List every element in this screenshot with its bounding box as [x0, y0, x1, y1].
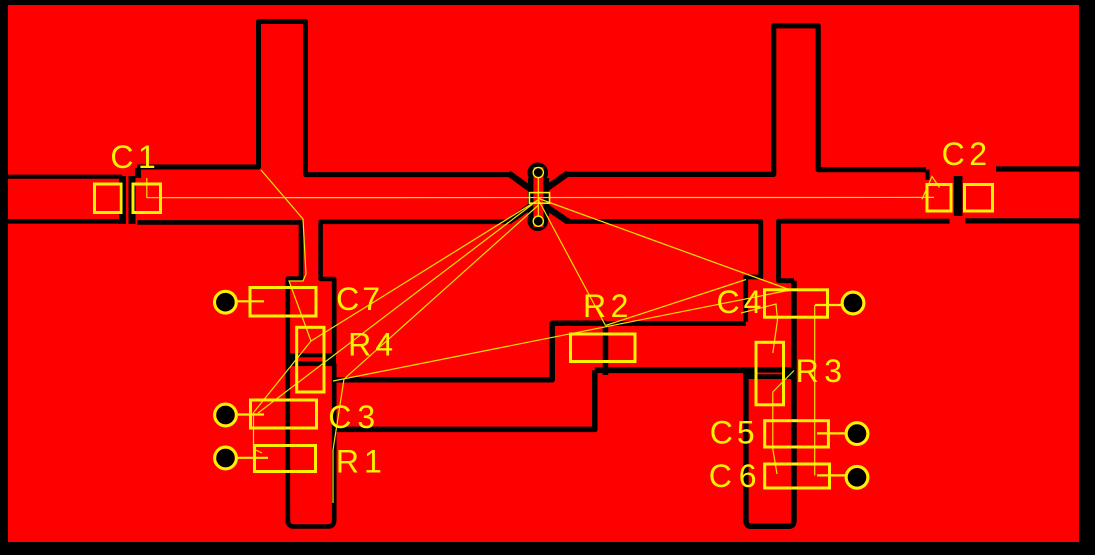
wire: C6 pad connector [817, 474, 846, 476]
svg-text:R4: R4 [348, 326, 397, 362]
via V1 clearance (top) [528, 163, 549, 184]
capacitor C2 pad 2 [965, 185, 993, 212]
wire: copper link between vias [533, 167, 543, 227]
wire: bottom edge channel to via, channel right edge into column right edge [321, 222, 510, 355]
wire: left column lower outline (U bottom) [288, 364, 334, 527]
node: copper gap between C1 pads (right bar) [129, 176, 136, 224]
svg-text:R3: R3 [796, 353, 848, 389]
capacitor C1 pad 1 [95, 184, 122, 213]
capacitor C7 pads [250, 288, 316, 317]
node: top edge jog right of C1 [135, 168, 141, 178]
svg-text:C4: C4 [717, 284, 766, 320]
wire: top edge via to right stub, right stub outline, to C2 [565, 26, 926, 175]
ratsnest: stub corner to C7 [261, 170, 311, 341]
wire: bottom edge channel to C2, channel right edge into right column [779, 221, 950, 281]
svg-text:C3: C3 [328, 399, 381, 435]
svg-text:R2: R2 [583, 288, 633, 324]
ratsnest: zigzag at C4 [741, 304, 778, 353]
ratsnest: via to lower left zone [333, 205, 539, 503]
wire: C4 pad connector [815, 304, 842, 306]
ratsnest: via to R2 [539, 200, 606, 326]
capacitor C4 pads [765, 290, 828, 317]
wire: trace edge R2 to C4 column (upper) [606, 321, 746, 326]
svg-text:R1: R1 [336, 444, 387, 480]
ratsnest: C1 to via to C2 [147, 196, 934, 198]
node: copper gap between R2 pads [603, 321, 609, 375]
wire: bottom edge via to right channel, channel left edge down [565, 222, 761, 322]
wire: R1 pad connector [237, 457, 269, 459]
wire: C7 pad connector [237, 300, 265, 302]
wire: trace pinch wedge bottom-left at via [509, 206, 532, 222]
wire: C5 pad connector [817, 432, 846, 434]
wire: H2 trace edge below, up to R2 [334, 370, 595, 429]
ratsnest: R4 area to C4 [333, 291, 788, 382]
ratsnest: C3 to R1 [254, 412, 263, 453]
svg-text:C2: C2 [942, 136, 992, 172]
svg-text:C1: C1 [110, 139, 160, 175]
wire: H1 trace edge R4 to R2 with notch [334, 323, 605, 380]
via V2 clearance (bottom) [528, 210, 549, 231]
resistor R2 pads [571, 334, 636, 362]
wire: bottom edge right of C2 [965, 218, 1079, 223]
via pad ring (top) [533, 167, 543, 177]
ratsnest: C1 pad vertical stub [146, 178, 148, 198]
wire: trace pinch wedge top-left at via [509, 173, 532, 189]
capacitor C6 pads [765, 464, 830, 488]
ratsnest: R3 to C6 [773, 371, 794, 475]
svg-text:C5: C5 [710, 415, 759, 451]
ratsnest: R4 to C3 [254, 341, 311, 412]
node: copper gap between C2 pads [954, 176, 963, 216]
wire: trace pinch wedge bottom-right at via [545, 206, 568, 222]
node: copper divider between R4 pads [286, 353, 336, 366]
resistor R3 pads [756, 342, 784, 405]
ratsnest: R2 to zone corner [606, 280, 747, 326]
ratsnest: zigzag at C2 pad [922, 177, 940, 200]
ratsnest: via to R4 [311, 200, 538, 341]
capacitor C1 pad 2 [133, 184, 161, 213]
via footprint outline [529, 193, 549, 204]
capacitor C4 hole pad [844, 294, 863, 313]
resistor R1 hole pad [216, 449, 235, 468]
wire: trace C1 to left stub, left stub outline, stub to via top edge [137, 22, 510, 175]
wire: bottom edge of trace, left of C1 [8, 219, 122, 224]
svg-text:C7: C7 [336, 281, 383, 317]
capacitor C3 pads [251, 400, 317, 428]
via pad ring (bottom) [533, 216, 543, 226]
capacitor C5 pads [765, 421, 829, 447]
resistor R1 pads [255, 446, 316, 472]
node: small step left of C2 pad [926, 170, 930, 180]
capacitor C2 pad 1 [927, 185, 951, 212]
node: copper gap between C1 pads (left bar) [119, 176, 126, 224]
ratsnest: via to C3 [258, 200, 538, 413]
wire: trace pinch wedge top-right at via [545, 173, 568, 189]
ratsnest: C4 to C6 (right pads) [814, 305, 816, 475]
capacitor C5 hole pad [848, 424, 867, 443]
capacitor C7 hole pad [216, 293, 235, 312]
ratsnest: via to C4 [539, 199, 790, 290]
wire: top edge right of C2 [996, 166, 1079, 171]
resistor R4 pads [297, 327, 324, 392]
wire: via link net line [537, 173, 539, 222]
wire: bottom edge C1 to channel, channel left edge down to left column [137, 222, 301, 524]
wire: top edge of trace, left of C1 [8, 175, 122, 179]
capacitor C6 hole pad [848, 468, 867, 487]
node: clearance bars beside via link [528, 178, 549, 216]
svg-text:C6: C6 [709, 458, 764, 494]
node: copper divider between R3 pads [745, 367, 794, 379]
wire: C3 pad connector [237, 413, 265, 415]
wire: trace edge R2 to C4 column (lower) [595, 367, 748, 373]
wire: right column outline (U bottom) [746, 281, 794, 527]
capacitor C3 hole pad [216, 406, 235, 425]
